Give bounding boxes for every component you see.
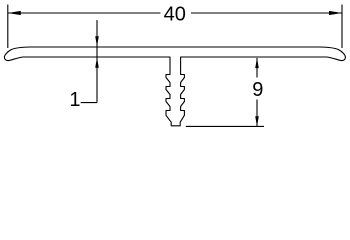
dimension line 40 left segment <box>8 12 161 14</box>
arrow up to flange bottom (1) <box>95 58 99 68</box>
dimension line 40 right segment <box>191 12 342 14</box>
dimension line 9 upper segment <box>256 58 258 78</box>
extension line left (40) <box>7 5 9 49</box>
profile outline (T-molding cross-section) <box>4 47 345 126</box>
arrow left of 40 <box>8 11 21 15</box>
arrow up (9) <box>255 58 259 68</box>
extension line bottom (9) <box>186 125 264 127</box>
svg-text:9: 9 <box>252 79 263 101</box>
arrow down to flange top (1) <box>95 36 99 46</box>
dimension line 9 lower segment <box>256 100 258 127</box>
extension line right (40) <box>341 5 343 49</box>
arrow down (9) <box>255 116 259 126</box>
leader line for 1 <box>96 20 98 103</box>
svg-text:1: 1 <box>69 89 80 111</box>
arrow right of 40 <box>329 11 342 15</box>
svg-text:40: 40 <box>164 4 186 26</box>
